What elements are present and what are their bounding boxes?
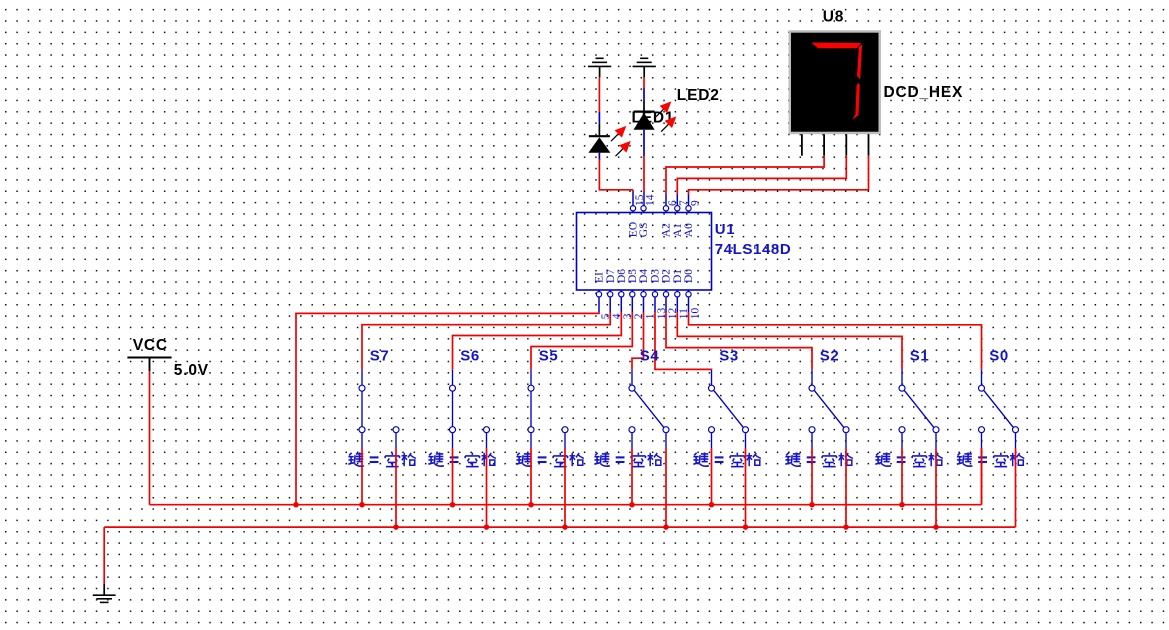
junction on vcc bus [450,502,456,508]
svg-text:74LS148D: 74LS148D [715,241,792,258]
U1 top pin 14 (GS) [638,194,656,237]
7-segment display U8 [789,30,881,134]
switch S3 [709,370,749,448]
wire S1 right throw to gnd bus [935,448,937,527]
svg-text:S1: S1 [910,348,930,365]
gnd bus wire [104,526,1015,528]
svg-text:GS: GS [638,222,650,237]
junction on vcc bus [709,502,715,508]
svg-text:S2: S2 [820,348,840,365]
junction on gnd bus [663,524,669,530]
svg-text:D4: D4 [638,269,650,283]
wire S4 left throw to vcc bus [631,448,633,505]
wire S0 left throw corner [981,448,983,505]
U1 bottom pin 2 (D5) [627,269,645,320]
wire U1 pin to switch S3 [655,312,712,370]
wire S3 right throw to gnd bus [745,448,747,527]
svg-text:D5: D5 [627,269,639,283]
junction on vcc bus [293,502,299,508]
svg-text:VCC: VCC [133,337,168,354]
wire S3 left throw to vcc bus [711,448,713,505]
wire S6 right throw to gnd bus [486,448,488,527]
svg-text:10: 10 [689,307,701,319]
U1 bottom pin 3 (D6) [616,269,634,320]
U1 top pin 15 (EO) [628,194,646,237]
label key=space for S1 [875,452,942,466]
junction on vcc bus [528,502,534,508]
U1 bottom pin 12 (D2) [661,269,679,320]
wire U1 pin to switch S2 [666,312,812,370]
display pin 3 wire to U1 A1 [677,134,846,205]
ground (top, LED2 branch) [633,58,656,77]
switch S6 [450,370,490,448]
U1 bottom pin 1 (D4) [638,269,656,320]
junction on gnd bus [843,524,849,530]
junction on gnd bus [484,524,490,530]
wire S1 left throw to vcc bus [901,448,903,505]
svg-text:A0: A0 [683,223,695,237]
U1 bottom pin 13 (D3) [650,269,668,320]
wire LED2 to U1 pin14 [643,130,645,206]
wire U1 pin to switch S0 [689,312,982,370]
label key=space for S4 [594,452,661,466]
svg-text:U1: U1 [715,221,735,238]
wire S4 right throw to gnd bus [665,448,667,527]
svg-text:DCD_HEX: DCD_HEX [884,84,964,101]
wire U1 pin to switch S5 [531,312,632,370]
svg-text:S6: S6 [460,348,480,365]
label key=space for S5 [516,452,583,466]
svg-text:S4: S4 [640,348,660,365]
wire U1 pin to switch S6 [453,312,622,370]
wire S0 right throw corner [1015,448,1017,527]
wire VCC to bus [149,371,151,505]
svg-text:A1: A1 [672,223,684,237]
svg-text:EI: EI [594,272,606,283]
U1 bottom pin 10 (D0) [683,269,701,320]
U1 bottom pin 5 (EI) [594,272,612,319]
wire U1 pin to switch S4 [632,312,644,370]
U1 top pin 7 (A1) [672,200,690,237]
svg-text:5.0V: 5.0V [174,362,209,379]
U1 bottom pin 11 (D1) [672,269,690,320]
wire S5 left throw to vcc bus [530,448,532,505]
wire gnd bus to ground [103,527,105,595]
svg-text:U8: U8 [823,9,844,26]
switch S1 [899,370,939,448]
svg-text:D0: D0 [683,269,695,283]
ground (bottom left) [93,595,116,602]
VCC power symbol [127,358,171,372]
label key=space for S6 [428,452,495,466]
switch S2 [809,370,849,448]
junction on vcc bus [809,502,815,508]
IC U1 74LS148D body [577,213,712,291]
ground (top, LED1 branch) [588,58,611,77]
junction on gnd bus [393,524,399,530]
svg-text:S3: S3 [719,348,739,365]
display pin 1 (nc) [801,134,803,156]
junction on gnd bus [562,524,568,530]
svg-text:S7: S7 [370,348,390,365]
U1 top pin 6 (A2) [661,200,679,237]
label key=space for S3 [693,452,760,466]
junction on gnd bus [743,524,749,530]
svg-text:9: 9 [689,200,701,206]
wire S2 left throw to vcc bus [811,448,813,505]
wire LED1 to U1 pin15 [599,153,633,206]
svg-text:S5: S5 [539,348,559,365]
svg-text:D1: D1 [672,269,684,283]
U1 bottom pin 4 (D7) [605,269,623,320]
wire S7 left throw to vcc bus [361,448,363,505]
display pin 2 wire to U1 A2 [666,134,824,205]
wire S0 left throw to vcc bus [981,448,983,505]
svg-text:A2: A2 [661,223,673,237]
wire S6 left throw to vcc bus [452,448,454,505]
wire U1 pin to switch S7 [362,312,610,370]
label key=space for S2 [785,452,852,466]
wire gnd1 to LED1 [598,77,600,136]
junction on gnd bus [933,524,939,530]
vcc bus wire [150,504,982,506]
U1 top pin 9 (A0) [683,200,701,237]
switch S5 [528,370,568,448]
switch S4 [629,370,669,448]
junction on vcc bus [899,502,905,508]
label key=space for S7 [348,452,415,466]
junction on vcc bus [359,502,365,508]
wire gnd2 to LED2 [643,77,645,111]
switch S7 [359,370,399,448]
LED LED1 [588,126,630,156]
label key=space for S0 [957,452,1024,466]
svg-text:LED2: LED2 [677,87,720,104]
junction on vcc bus [629,502,635,508]
svg-text:14: 14 [644,194,656,206]
LED LED2 [634,101,677,131]
wire S7 right throw to gnd bus [395,448,397,527]
svg-text:S0: S0 [989,348,1009,365]
wire U1 pin to switch S1 [677,312,902,370]
display pin 4 wire to U1 A0 [689,134,869,205]
wire S5 right throw to gnd bus [564,448,566,527]
wire U1 pin5 EI to vcc bus [296,312,599,505]
switch S0 [979,370,1019,448]
svg-text:D2: D2 [661,269,673,283]
wire S2 right throw to gnd bus [845,448,847,527]
